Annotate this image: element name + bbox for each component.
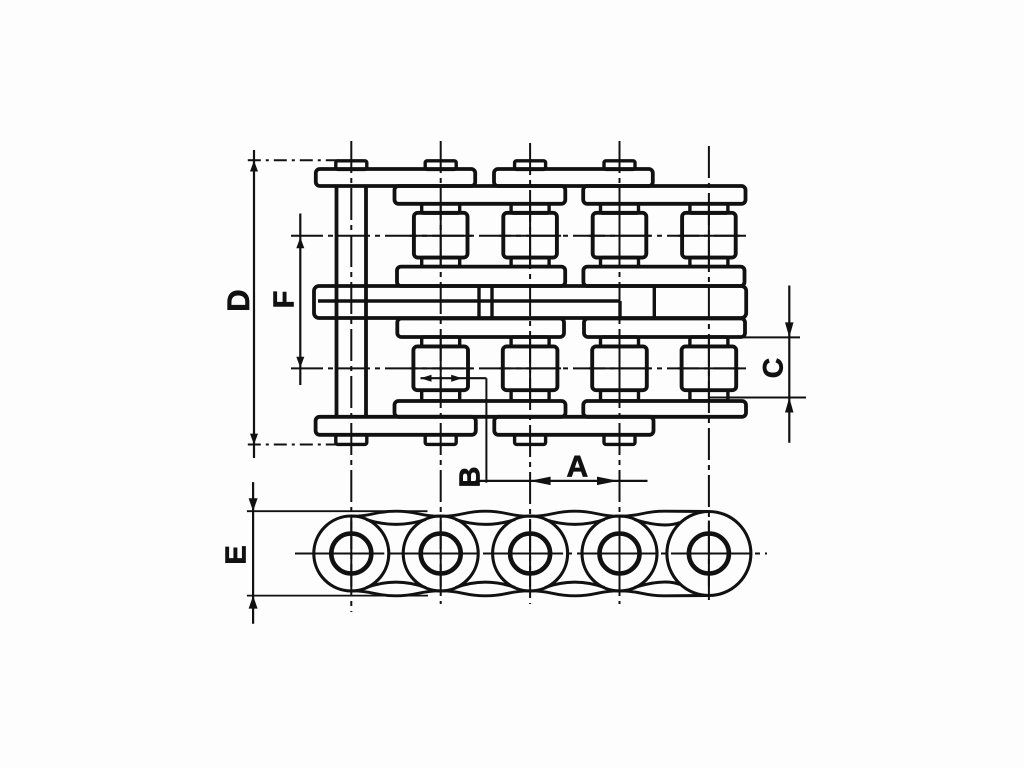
pin 5 vertical centerline	[708, 146, 710, 600]
row1 roller pin 2 solid vertical centerline	[440, 205, 442, 267]
dimension C upper arrow	[785, 322, 794, 337]
roller row 1 horizontal centerline	[291, 235, 746, 237]
row2 bushing top flange pin 4	[601, 337, 639, 346]
dimension C upper extension	[735, 336, 800, 338]
side view circle pin 4 solid cross horizontal	[587, 553, 653, 555]
upper middle plate (pins 2-3)	[397, 267, 565, 286]
side view inner plate end arc pin 5	[667, 512, 751, 596]
side view circle pin 1 solid cross horizontal	[318, 553, 384, 555]
dimension A left arrow	[530, 477, 551, 486]
side view plate end arc pin 4	[582, 516, 657, 591]
pin 3 top cap	[515, 161, 546, 170]
dimension C line	[788, 286, 790, 443]
row1 bushing bottom flange pin 4	[601, 258, 639, 267]
side view roller circle pin 2	[421, 534, 461, 574]
top inner plate (pins 4-5)	[583, 186, 745, 204]
outer plate bottom waist gap 4	[635, 582, 681, 587]
row2 bushing top flange pin 3	[511, 337, 549, 346]
row1 bushing top flange pin 4	[601, 204, 639, 213]
pin 2 top cap	[425, 161, 456, 170]
bottom view horizontal centerline	[295, 553, 767, 555]
center band end line	[653, 288, 656, 317]
upper middle plate (pins 4-5)	[583, 267, 744, 286]
row2 roller pin 3 solid horizontal centerline	[499, 367, 561, 369]
inner plate top contour (crescents)	[351, 511, 709, 516]
lower middle plate (pins 4-5)	[584, 319, 745, 338]
pin 2 bottom cap	[425, 435, 456, 445]
top outer plate (pins 3-4)	[494, 169, 653, 186]
row1 roller pin 5	[682, 213, 736, 258]
dimension F bottom arrow	[296, 357, 304, 368]
row1 roller pin 2 solid horizontal centerline	[410, 235, 472, 237]
row1 roller pin 4 solid vertical centerline	[619, 205, 621, 267]
dimension A line	[476, 480, 648, 482]
side view circle pin 2 solid cross vertical	[440, 521, 442, 587]
row2 roller pin 4	[592, 346, 647, 390]
row2 roller pin 2 solid vertical centerline	[440, 338, 442, 400]
row1 roller pin 2	[414, 213, 468, 258]
dimension E top extension	[247, 510, 428, 512]
side view plate end arc pin 3	[493, 516, 568, 591]
row2 bushing bottom flange pin 4	[601, 390, 639, 401]
lower middle plate (pins 2-3)	[397, 319, 564, 338]
row1 bushing top flange pin 5	[690, 204, 728, 213]
pin 1 vertical centerline	[350, 141, 352, 612]
dimension D top extension (dash-dot)	[248, 159, 338, 161]
dimension E top arrow	[249, 498, 258, 511]
outer plate top waist gap 1	[366, 520, 425, 525]
pin 4 top cap	[604, 161, 635, 170]
dimension D top arrow	[250, 161, 258, 172]
row1 bushing bottom flange pin 3	[511, 258, 549, 267]
row1 bushing top flange pin 3	[511, 204, 549, 213]
side view roller circle pin 4	[600, 534, 640, 574]
outer plate bottom waist gap 1	[366, 582, 425, 587]
center band midline	[318, 299, 620, 302]
row2 bushing bottom flange pin 5	[690, 390, 728, 401]
connecting pin 1 body left edge	[335, 186, 339, 417]
dimension D line	[253, 150, 255, 458]
row2 roller pin 2 solid horizontal centerline	[410, 367, 472, 369]
side view plate end arc pin 1	[314, 516, 389, 591]
dimension A right arrow	[597, 477, 618, 486]
dimension D bottom arrow	[250, 434, 258, 445]
bottom inner plate (pins 4-5)	[583, 401, 746, 417]
pin 1 bottom cap	[336, 435, 367, 445]
dimension B line	[421, 377, 487, 379]
bottom inner plate (pins 2-3)	[395, 401, 566, 417]
side view circle pin 1 solid cross vertical	[350, 521, 352, 587]
row2 roller pin 2	[413, 346, 468, 390]
dimension C lower arrow	[785, 398, 794, 413]
pin 3 vertical centerline	[529, 143, 531, 604]
center band lower plate end	[618, 301, 621, 317]
dimension B leader	[485, 378, 487, 482]
inner plate bottom contour (crescents)	[351, 591, 709, 596]
row1 roller pin 3 solid vertical centerline	[529, 205, 531, 267]
row1 bushing bottom flange pin 5	[690, 258, 728, 267]
outer plate bottom waist gap 3	[545, 582, 604, 587]
svg-text:F: F	[269, 291, 301, 309]
dimension E line	[252, 482, 254, 624]
row1 roller pin 5 solid vertical centerline	[708, 205, 710, 267]
row1 bushing bottom flange pin 2	[422, 258, 460, 267]
dimension B left arrow	[421, 375, 432, 382]
svg-text:A: A	[566, 450, 588, 483]
side view circle pin 4 solid cross vertical	[619, 521, 621, 587]
row1 roller pin 3 solid horizontal centerline	[499, 235, 561, 237]
side view circle pin 3 solid cross horizontal	[497, 553, 563, 555]
row2 roller pin 4 solid horizontal centerline	[589, 367, 651, 369]
row2 bushing top flange pin 5	[690, 337, 728, 346]
svg-text:D: D	[221, 289, 256, 311]
pin 4 vertical centerline	[619, 141, 621, 604]
center plate band outline	[314, 286, 746, 318]
row1 bushing top flange pin 2	[422, 204, 460, 213]
side view circle pin 3 solid cross vertical	[529, 521, 531, 587]
row1 roller pin 4	[593, 213, 647, 258]
row2 roller pin 5 solid vertical centerline	[708, 338, 710, 400]
outer plate top waist gap 4	[635, 520, 681, 525]
bottom outer plate (pins 3-4)	[494, 417, 653, 435]
bottom outer plate (pins 1-2)	[316, 417, 476, 435]
row2 bushing top flange pin 2	[422, 337, 460, 346]
center band joint line b	[490, 288, 493, 317]
pin 3 bottom cap	[515, 435, 546, 445]
side view circle pin 5 solid cross vertical	[708, 521, 710, 587]
center band joint line a	[477, 288, 480, 317]
side view circle pin 2 solid cross horizontal	[408, 553, 474, 555]
top outer plate (pins 1-2)	[316, 169, 475, 186]
row2 roller pin 4 solid vertical centerline	[619, 338, 621, 400]
outer plate top waist gap 2	[456, 520, 515, 525]
row2 roller pin 5 solid horizontal centerline	[678, 367, 740, 369]
row1 roller pin 5 solid horizontal centerline	[678, 235, 740, 237]
side view circle pin 5 solid cross horizontal	[676, 553, 742, 555]
dimension F top arrow	[296, 237, 304, 248]
pin 2 vertical centerline	[440, 141, 442, 604]
svg-text:B: B	[455, 467, 487, 488]
connecting pin 1 body right edge	[364, 186, 368, 417]
dimension B right arrow	[451, 375, 462, 382]
outer plate top waist gap 3	[545, 520, 604, 525]
row2 bushing bottom flange pin 2	[422, 390, 460, 401]
row2 bushing bottom flange pin 3	[511, 390, 549, 401]
dimension D bottom extension (dash-dot)	[248, 444, 336, 446]
row1 roller pin 3	[503, 213, 557, 258]
row2 roller pin 5	[682, 346, 737, 390]
dimension F line	[299, 214, 301, 386]
dimension C lower extension	[710, 397, 806, 399]
svg-text:E: E	[221, 545, 253, 564]
dimension E bottom extension	[247, 595, 428, 597]
svg-text:C: C	[758, 358, 789, 378]
row1 roller pin 4 solid horizontal centerline	[589, 235, 651, 237]
row2 roller pin 3	[503, 346, 558, 390]
side view roller circle pin 1	[331, 534, 371, 574]
side view plate end arc pin 2	[403, 516, 478, 591]
dimension E bottom arrow	[249, 596, 258, 609]
side view roller circle pin 3	[510, 534, 550, 574]
pin 4 bottom cap	[604, 435, 635, 445]
outer plate bottom waist gap 2	[456, 582, 515, 587]
side view roller circle pin 5	[689, 534, 729, 574]
row2 roller pin 3 solid vertical centerline	[529, 338, 531, 400]
top inner plate (pins 2-3)	[395, 186, 566, 204]
pin 1 top cap	[336, 161, 367, 170]
roller row 2 horizontal centerline	[291, 367, 746, 369]
